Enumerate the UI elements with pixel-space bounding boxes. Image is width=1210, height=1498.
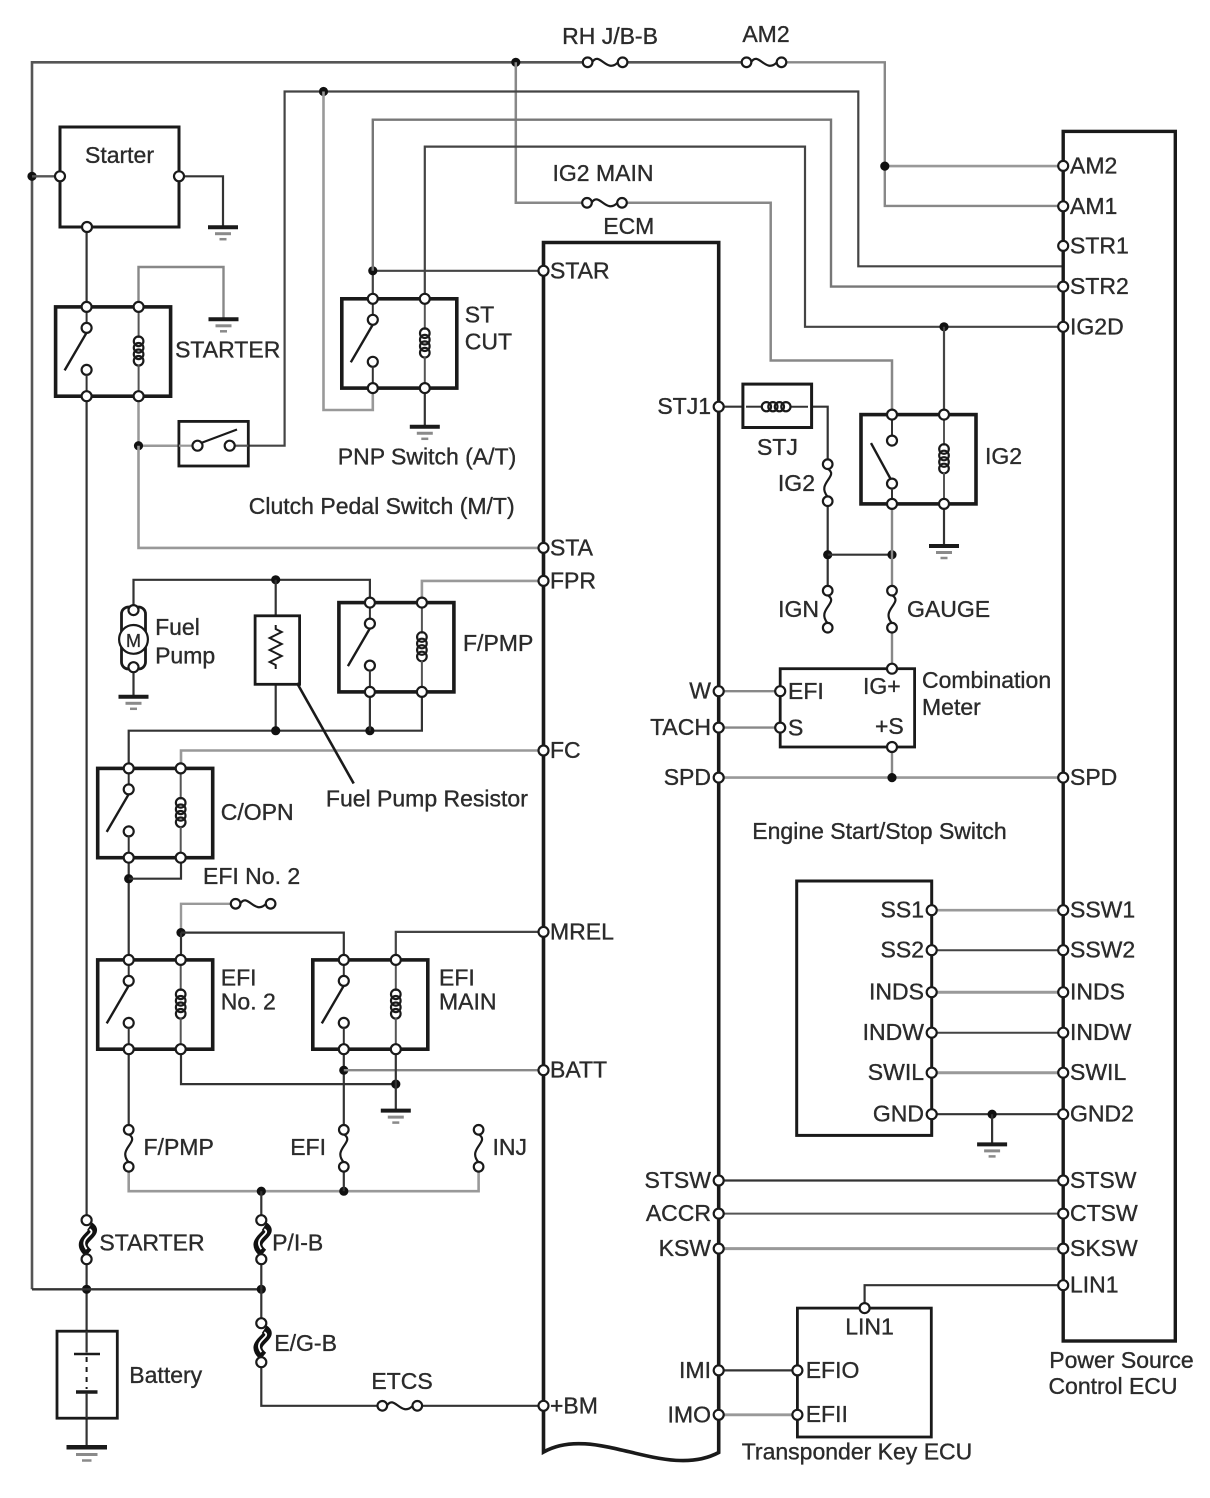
svg-text:EFI No. 2: EFI No. 2 [203, 863, 300, 889]
ground start/stop switch [977, 1144, 1007, 1156]
relay EFI No. 2 [98, 955, 213, 1054]
wire LIN1 [865, 1285, 1062, 1308]
svg-text:INDS: INDS [1070, 979, 1125, 1005]
wire GAUGE fuse to Combination Meter [891, 628, 893, 669]
svg-text:S: S [788, 715, 803, 741]
fuse RH J/B-B [562, 23, 658, 67]
svg-text:IMI: IMI [679, 1357, 711, 1383]
wire junction rail IGN-GAUGE [828, 554, 892, 556]
node GND junction [988, 1110, 997, 1119]
component fuel pump [119, 605, 215, 672]
wire SPD [719, 776, 1062, 779]
pin SKSW [1058, 1235, 1138, 1261]
wire fuel pump rail [134, 580, 370, 606]
node STAR junction [368, 266, 377, 275]
component battery [57, 1331, 203, 1418]
wire meter +S to SPD [891, 747, 893, 778]
wire GND to ground [991, 1114, 993, 1144]
fusible link E/G-B [256, 1318, 337, 1367]
pin SSW2 [1058, 937, 1135, 963]
wire SS1 [932, 909, 1062, 912]
pin LIN1 psc [1058, 1272, 1118, 1298]
svg-text:ST: ST [465, 302, 494, 328]
wire ACCR to CTSW [719, 1213, 1062, 1215]
pin TACH [650, 714, 724, 740]
svg-text:IG2D: IG2D [1070, 313, 1124, 339]
node coil ground junction [391, 1080, 400, 1089]
wire IG2 relay coil to ground [943, 504, 945, 546]
fusible link P/I-B [256, 1215, 323, 1264]
svg-text:CTSW: CTSW [1070, 1200, 1138, 1226]
wire STAR loop to STR2 [373, 120, 1062, 287]
svg-text:Fuel Pump Resistor: Fuel Pump Resistor [326, 786, 528, 812]
pin FPR [539, 567, 597, 593]
svg-text:GND: GND [873, 1101, 924, 1127]
wire C/OPN rail [129, 692, 422, 769]
svg-text:M: M [126, 631, 141, 651]
node STA junction [134, 441, 143, 450]
svg-text:STARTER: STARTER [175, 337, 280, 363]
pin BATT [539, 1057, 608, 1083]
svg-text:INDW: INDW [863, 1019, 925, 1045]
pin IMI [679, 1357, 724, 1383]
svg-text:IG2: IG2 [778, 470, 815, 496]
node starter feed junction [27, 172, 36, 181]
node rail P/I-B junction [257, 1187, 266, 1196]
fuse IG2 MAIN [553, 160, 654, 208]
svg-text:STJ: STJ [757, 434, 798, 460]
wire STJ1 to STJ [719, 406, 743, 408]
pin FC [539, 737, 581, 763]
component Starter [55, 127, 184, 232]
wire EFI fuse to rail [343, 1167, 345, 1192]
wire STJ to IG2 fuse [812, 407, 828, 465]
wire clutch switch to STR1 line [234, 92, 1062, 446]
fuse F/PMP [124, 1125, 214, 1172]
svg-text:+BM: +BM [550, 1392, 598, 1418]
node rail resistor junction [271, 726, 280, 735]
svg-text:ETCS: ETCS [371, 1368, 432, 1394]
wire STA [139, 446, 543, 548]
label Fuel Pump Resistor [297, 683, 528, 812]
svg-text:SWIL: SWIL [868, 1059, 924, 1085]
svg-text:SSW2: SSW2 [1070, 937, 1135, 963]
node BATT junction [339, 1066, 348, 1075]
wire E/G-B to ETCS fuse [261, 1362, 382, 1406]
svg-text:AM1: AM1 [1070, 193, 1117, 219]
fuse ETCS [371, 1368, 432, 1411]
svg-text:EFI: EFI [439, 965, 475, 991]
node ST CUT loop junction [319, 87, 328, 96]
svg-text:STSW: STSW [645, 1167, 712, 1193]
svg-text:ACCR: ACCR [646, 1200, 711, 1226]
relay C/OPN [98, 763, 213, 862]
wire coil ground rail [181, 1049, 396, 1084]
wire GND to GND2 [932, 1113, 1062, 1115]
component Combination Meter [775, 664, 1051, 752]
wire STARTER link to battery junction [85, 1259, 87, 1331]
pin CTSW [1058, 1200, 1138, 1226]
wire EFI MAIN coil to ground [395, 1049, 397, 1110]
pin STA [539, 534, 594, 560]
relay F/PMP [339, 598, 454, 697]
svg-text:Meter: Meter [922, 694, 981, 720]
ground fuel pump [119, 697, 149, 709]
svg-text:EFI: EFI [221, 965, 257, 991]
svg-text:STR1: STR1 [1070, 232, 1129, 258]
node top feed junction x516 [511, 58, 520, 67]
wire rail to P/I-B link [260, 1191, 262, 1220]
svg-text:IG2 MAIN: IG2 MAIN [553, 160, 654, 186]
ground starter [208, 227, 238, 239]
ground ST CUT [410, 427, 440, 439]
svg-text:STSW: STSW [1070, 1167, 1137, 1193]
wire STSW [719, 1179, 1062, 1181]
label Power Source Control ECU [1048, 1347, 1193, 1399]
wire IG2 MAIN feed [516, 62, 587, 203]
wire Starter to ground [179, 176, 223, 227]
pin GND2 [1058, 1101, 1134, 1127]
svg-text:EFI: EFI [290, 1134, 326, 1160]
wire battery to ground [85, 1418, 87, 1447]
component Transponder Key ECU [792, 1303, 931, 1437]
pin IMO [668, 1401, 724, 1427]
node resistor top junction [271, 575, 280, 584]
wire MREL to EFI MAIN coil [396, 932, 542, 960]
svg-text:P/I-B: P/I-B [272, 1230, 323, 1256]
svg-text:STJ1: STJ1 [657, 393, 711, 419]
svg-text:Pump: Pump [155, 643, 215, 669]
pin STJ1 [657, 393, 723, 419]
svg-text:MAIN: MAIN [439, 989, 497, 1015]
svg-text:MREL: MREL [550, 918, 614, 944]
ground IG2 relay [929, 546, 959, 558]
svg-text:CUT: CUT [465, 329, 512, 355]
wire IG2 fuse to IGN junction [827, 501, 829, 590]
svg-text:SWIL: SWIL [1070, 1059, 1126, 1085]
svg-text:EFI: EFI [788, 678, 824, 704]
wire IMO to EFII [719, 1413, 798, 1416]
pin SSW1 [1058, 897, 1135, 923]
wire C/OPN coil return [129, 858, 181, 879]
relay STARTER [56, 302, 171, 401]
pin SPD psc [1058, 764, 1117, 790]
wire FPR to F/PMP coil [422, 581, 542, 603]
switch clutch start [179, 421, 248, 466]
svg-text:KSW: KSW [659, 1235, 712, 1261]
svg-text:STR2: STR2 [1070, 273, 1129, 299]
pin AM2 [1058, 152, 1117, 178]
svg-text:Engine Start/Stop Switch: Engine Start/Stop Switch [752, 818, 1006, 844]
wire BATT [344, 1069, 542, 1071]
node GAUGE junction [887, 550, 896, 559]
svg-text:Clutch Pedal Switch (M/T): Clutch Pedal Switch (M/T) [249, 493, 515, 519]
pin STR2 [1058, 273, 1129, 299]
wire FC [181, 751, 542, 769]
pin W [689, 678, 723, 704]
wire top feed RH J/B-B to AM2 fuse [622, 61, 745, 64]
svg-text:E/G-B: E/G-B [274, 1330, 337, 1356]
wire bottom rail [32, 1288, 261, 1290]
svg-text:F/PMP: F/PMP [463, 630, 533, 656]
relay ST CUT [342, 294, 457, 393]
svg-text:SKSW: SKSW [1070, 1235, 1138, 1261]
wire feed to Starter [32, 175, 60, 177]
svg-text:SS1: SS1 [881, 897, 924, 923]
relay EFI MAIN [313, 955, 428, 1054]
pin INDS psc [1058, 979, 1125, 1005]
node P/I-B bottom junction [257, 1285, 266, 1294]
node rail EFI junction [339, 1187, 348, 1196]
wire resistor branch bottom [275, 675, 277, 731]
node IG2D junction [939, 322, 948, 331]
pin INDW psc [1058, 1019, 1131, 1045]
wire INDS [932, 991, 1062, 994]
wire STARTER relay switch to STARTER fusible link [85, 396, 87, 1220]
wire junction to EFI MAIN switch [181, 933, 344, 960]
fuse AM2 [742, 21, 790, 67]
fuse EFI No. 2 [203, 863, 300, 909]
wire W to EFI [719, 690, 781, 692]
svg-text:SSW1: SSW1 [1070, 897, 1135, 923]
svg-text:STA: STA [550, 534, 594, 560]
svg-text:+S: +S [875, 713, 904, 739]
node IGN junction [823, 550, 832, 559]
wire F/PMP switch to rail [369, 692, 371, 731]
svg-text:INDS: INDS [869, 979, 924, 1005]
pin +BM [539, 1392, 598, 1418]
wire IG2 MAIN fuse to IG2 relay switch [623, 203, 892, 415]
svg-text:INJ: INJ [493, 1134, 528, 1160]
svg-text:SS2: SS2 [881, 937, 924, 963]
wire bottom rail to E/G-B link [260, 1289, 262, 1323]
svg-text:FPR: FPR [550, 567, 596, 593]
wire STAR to ST CUT switch [373, 271, 542, 299]
node rail F/PMP junction [365, 726, 374, 735]
svg-text:Control ECU: Control ECU [1048, 1373, 1177, 1399]
pin STAR [539, 257, 610, 283]
pin IG2D [1058, 313, 1123, 339]
svg-text:IMO: IMO [668, 1401, 711, 1427]
svg-text:IG+: IG+ [863, 673, 901, 699]
ground EFI MAIN [381, 1111, 411, 1123]
svg-text:TACH: TACH [650, 714, 711, 740]
svg-text:SPD: SPD [1070, 764, 1117, 790]
node SPD junction [887, 773, 896, 782]
pin AM1 [1058, 193, 1117, 219]
wire INDW [932, 1032, 1062, 1034]
svg-text:GAUGE: GAUGE [907, 596, 990, 622]
svg-text:LIN1: LIN1 [1070, 1272, 1119, 1298]
svg-text:RH J/B-B: RH J/B-B [562, 23, 658, 49]
svg-text:AM2: AM2 [742, 21, 789, 47]
wire STARTER relay coil to clutch switch [139, 396, 194, 446]
svg-text:FC: FC [550, 737, 581, 763]
wire IMI to EFIO [719, 1369, 798, 1371]
wire TACH to S [719, 726, 781, 728]
wire resistor branch top [275, 580, 277, 625]
svg-text:AM2: AM2 [1070, 152, 1117, 178]
pin ACCR [646, 1200, 724, 1226]
wire fuse bottom rail [129, 1167, 479, 1192]
wire STARTER relay coil to ground [139, 267, 224, 319]
wire AM2 fuse to AM2/AM1 pins [784, 62, 1062, 206]
svg-text:Fuel: Fuel [155, 614, 200, 640]
label ST CUT [465, 302, 512, 355]
op-amp ECM box [544, 243, 719, 1461]
fusible link STARTER [82, 1215, 205, 1264]
wire AM2 branch [885, 165, 1062, 168]
wire IG2D net [425, 147, 1062, 327]
svg-text:LIN1: LIN1 [845, 1314, 894, 1340]
wire SWIL [932, 1071, 1062, 1074]
wire ST CUT switch return loop [324, 92, 373, 411]
resistor fuel pump resistor [255, 616, 300, 685]
wire KSW to SKSW [719, 1247, 1062, 1250]
label EFI No. 2 relay [221, 965, 276, 1015]
node battery junction [82, 1285, 91, 1294]
fuse EFI [290, 1125, 348, 1172]
wire junction to EFI No.2 coil [180, 933, 182, 960]
pin STSW psc [1058, 1167, 1137, 1193]
svg-text:STAR: STAR [550, 257, 610, 283]
svg-text:SPD: SPD [664, 764, 711, 790]
wire P/I-B link to bottom rail [260, 1259, 262, 1289]
svg-text:W: W [689, 678, 711, 704]
svg-text:Transponder Key ECU: Transponder Key ECU [742, 1439, 973, 1465]
component Engine Start/Stop Switch [797, 881, 937, 1135]
component STJ [743, 384, 812, 460]
pin SWIL psc [1058, 1059, 1126, 1085]
label EFI MAIN relay [439, 965, 497, 1015]
svg-text:Power Source: Power Source [1049, 1347, 1193, 1373]
fuse IG2 [778, 459, 833, 506]
pin STR1 [1058, 232, 1129, 258]
svg-text:C/OPN: C/OPN [221, 799, 294, 825]
svg-text:INDW: INDW [1070, 1019, 1132, 1045]
node C/OPN out junction [124, 874, 133, 883]
ground STARTER relay [209, 319, 239, 331]
op-amp Power Source Control ECU box [1063, 131, 1175, 1341]
svg-text:BATT: BATT [550, 1057, 607, 1083]
fuse GAUGE [887, 586, 990, 633]
ground battery [67, 1447, 108, 1460]
svg-text:EFIO: EFIO [806, 1357, 860, 1383]
svg-text:STARTER: STARTER [99, 1230, 204, 1256]
pin KSW [659, 1235, 724, 1261]
svg-text:EFII: EFII [806, 1401, 848, 1427]
wire Starter to STARTER relay switch [85, 227, 87, 307]
svg-text:Battery: Battery [129, 1362, 202, 1388]
wire fuel pump to ground [132, 669, 134, 697]
node AM2 branch junction [880, 162, 889, 171]
wire SS2 [932, 949, 1062, 951]
svg-text:IGN: IGN [778, 596, 819, 622]
wire EFI MAIN switch to EFI fuse [343, 1049, 345, 1130]
svg-text:Combination: Combination [922, 667, 1051, 693]
wire IG2D to IG2 relay coil [943, 327, 945, 415]
svg-text:PNP Switch (A/T): PNP Switch (A/T) [338, 444, 517, 470]
wire EFI No.2 switch to F/PMP fuse [128, 1049, 130, 1130]
svg-text:F/PMP: F/PMP [144, 1134, 214, 1160]
svg-text:GND2: GND2 [1070, 1101, 1134, 1127]
wire IG2 relay switch to GAUGE fuse [891, 504, 893, 591]
fuse IGN [778, 586, 832, 633]
svg-text:No. 2: No. 2 [221, 989, 276, 1015]
relay IG2 [861, 410, 976, 509]
svg-text:IG2: IG2 [985, 443, 1022, 469]
fuse INJ [474, 1125, 527, 1172]
pin STSW ecm [645, 1167, 724, 1193]
wire battery feed top loop [32, 62, 588, 1289]
wire EFI No.2 fuse branch [181, 904, 236, 933]
wire ST CUT coil to ground [424, 388, 426, 427]
wire ETCS to +BM [419, 1405, 542, 1407]
pin MREL [539, 918, 615, 944]
pin SPD ecm [664, 764, 724, 790]
svg-text:Starter: Starter [85, 142, 154, 168]
wire C/OPN switch out [128, 858, 130, 960]
node MREL junction [176, 928, 185, 937]
svg-text:ECM: ECM [603, 213, 654, 239]
